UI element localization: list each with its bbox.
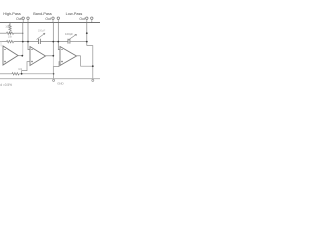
wire lower continues to capacitor C1 [14,41,39,43]
wire U1 inverting input faint L [1,42,3,46]
resistor R4 [12,73,19,75]
wire lower (y=41.6) left segment with resistor R3 [0,41,7,43]
wire U3 output down and right to LP drop [81,56,93,66]
node dot BP1/lower wire [52,41,54,43]
op-amp U3 [60,47,77,66]
U3 plus mark [61,61,63,63]
wire U3 non-inverting elbow to BP vertical [53,62,60,67]
wire drop to ground rail [53,74,55,79]
node dot ground wire mid [53,73,55,75]
U1 minus mark [4,48,6,50]
wire BP vertical 2 to op3 inverting input [58,23,60,50]
wire BP vertical 1 to op2 output [52,23,54,56]
op-amp U1 [3,46,18,65]
node dot U2 output [52,55,54,57]
op-amp U2 [30,47,46,66]
svg-text:Out: Out [45,17,51,21]
capacitor C1 plates [39,39,41,44]
wire upper continues to HP vertical [14,32,23,34]
U2 minus mark [31,49,33,51]
wire U3 output right [76,55,81,57]
wire HP vertical 2 to op2 inverting input [28,23,30,50]
wire top rail [0,22,100,24]
terminal ground 1 [53,79,55,81]
node dot HP1/lower wire [22,41,24,43]
svg-text:High-Pass: High-Pass [3,12,21,16]
wire ground return continues [19,73,54,75]
terminal ground 2 [92,79,94,81]
resistor R1 (vertical, top rail to upper wire) [9,23,11,33]
resistor R2 [7,32,14,34]
wire LP jog right and down to ground rail [87,46,93,79]
wire HP vertical 1 [22,23,24,42]
svg-text:GND: GND [57,82,63,86]
resistor R3 [7,40,14,42]
wire terminal stubs to top rail [23,19,92,22]
terminal HP2 [27,17,29,19]
wire LP vertical 1 [86,23,88,46]
wire ground return (y=73.8) with resistor R4 [0,73,12,75]
svg-text:Out: Out [16,17,22,21]
terminal BP2 [57,17,59,19]
node dot HP2/lower wire [27,41,29,43]
svg-text:d =0.5%: d =0.5% [0,83,12,87]
wire BP vertical 1 faint continuation [52,56,54,67]
svg-text:Low-Pass: Low-Pass [66,12,83,16]
svg-text:100pF: 100pF [65,32,73,36]
wire lower middle segment [40,41,68,43]
node dot R1/upper wire [9,33,10,34]
node dot LP/lower wire [86,41,88,43]
U1 plus mark [4,61,6,63]
capacitor C2 plates [68,39,70,44]
node dot U1 output [21,55,23,57]
terminal LP1 [86,17,88,19]
node dot LP/upper level [86,32,88,34]
node dot LP elbow [92,65,94,67]
wire U2 non-inverting elbow to ground wire [22,62,30,74]
wire U2 output to BP vertical [46,55,54,57]
wire upper (y=33) with resistor R2 [0,32,7,34]
svg-text:Out: Out [79,17,85,21]
terminal HP1 [22,17,24,19]
node dot BP2/lower wire [57,41,59,43]
wire U1 output [18,55,23,57]
U3 minus mark [61,49,63,51]
capacitor C1 trimmer arrow [37,33,46,39]
wire lower right segment [70,41,87,43]
svg-text:100pF: 100pF [38,29,46,33]
ground rail [0,78,100,80]
terminal BP1 [52,17,54,19]
node dot HP/upper wire [22,33,23,34]
capacitor C2 trimmer arrow [68,34,77,40]
node dot ground wire left [21,73,23,75]
U2 plus mark [31,61,33,63]
svg-text:Band-Pass: Band-Pass [33,12,52,16]
wire HP vertical 1 faint continuation to op1 output [22,42,24,56]
terminal LP2 [91,17,93,19]
